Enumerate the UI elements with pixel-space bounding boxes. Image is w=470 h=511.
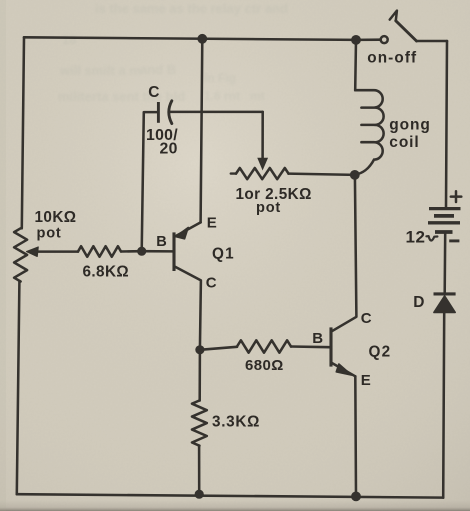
svg-text:B: B <box>312 330 323 347</box>
transistor Q1 emitter arrowhead (PNP, points to base) <box>176 227 189 239</box>
wire stub from node B to switch terminal <box>357 38 380 41</box>
battery - sign <box>449 239 459 242</box>
wire 6.8K to base node C <box>121 250 142 253</box>
node B (top-right junction) <box>351 35 361 45</box>
wire 3.3K down to bottom node F <box>198 446 201 495</box>
svg-text:will smilt a m: will smilt a m <box>59 63 141 78</box>
wire pot right lead to coil-bottom node D <box>289 174 355 175</box>
wire 680 to Q2 base bar <box>291 345 329 348</box>
inductor L1 gong coil <box>355 90 383 174</box>
battery B1 plate short <box>434 214 454 218</box>
resistor R4 680 element <box>237 340 291 352</box>
svg-text:gong: gong <box>389 116 430 133</box>
wire node B down to coil top <box>354 40 357 90</box>
svg-text:3.3KΩ: 3.3KΩ <box>212 414 260 431</box>
svg-text:Q2: Q2 <box>369 344 392 361</box>
switch S1 terminal circle <box>381 36 388 43</box>
wire switch to right rail corner <box>417 40 448 43</box>
svg-text:18: 18 <box>62 32 76 47</box>
wire right rail mid (battery - to diode) <box>443 234 446 293</box>
resistor R3 6.8K element <box>78 246 121 257</box>
svg-text:pot: pot <box>256 200 281 216</box>
wire bottom rail <box>17 494 443 497</box>
capacitor C right plate (curved) <box>169 101 172 124</box>
wire coil-bottom node D down to Q2 collector corner <box>332 175 357 331</box>
svg-text:20: 20 <box>160 141 178 158</box>
wire capacitor left lead + down to base node <box>142 112 159 251</box>
diode D cathode bar <box>434 292 456 295</box>
battery B1 plate long top <box>429 207 461 210</box>
diode D triangle <box>434 296 455 313</box>
node E (680/3.3K junction) <box>195 345 204 354</box>
svg-text:C: C <box>148 84 159 101</box>
switch S1 blade <box>396 21 417 41</box>
wire left rail upper (to 10K pot) <box>22 37 24 228</box>
svg-text:militerta sent the bld: militerta sent the bld <box>58 89 185 104</box>
svg-text:mt: mt <box>250 89 265 103</box>
node C (Q1 base junction) <box>137 247 146 256</box>
wire node E to 680 resistor <box>200 347 237 350</box>
battery B1 plate short bottom <box>435 230 453 234</box>
battery + sign <box>451 191 462 202</box>
svg-text:B: B <box>156 234 167 250</box>
potentiometer R1 10K pot element <box>14 228 27 281</box>
svg-text:on-off: on-off <box>367 50 417 67</box>
wire Q1 base lead from node C <box>142 250 173 253</box>
svg-text:E: E <box>361 372 371 389</box>
wire right rail upper (switch to battery +) <box>446 41 447 207</box>
wire mid-left vertical: node A down to Q1 emitter corner <box>201 39 203 223</box>
svg-text:C: C <box>206 274 217 291</box>
svg-text:10KΩ: 10KΩ <box>35 209 77 226</box>
resistor R2 1-or-2.5K pot element <box>231 172 236 174</box>
transistor Q2 emitter diagonal <box>331 362 356 376</box>
svg-text:and B: and B <box>140 62 176 77</box>
svg-text:D: D <box>413 294 424 311</box>
svg-text:E: E <box>207 215 217 232</box>
svg-text:coil: coil <box>389 134 419 151</box>
svg-text:680Ω: 680Ω <box>245 357 284 374</box>
wire Q2 emitter down to bottom node G <box>354 376 357 496</box>
wire right rail lower (diode to bottom rail) <box>443 313 444 498</box>
wire left rail lower <box>17 282 20 495</box>
wiper arrow of 10K pot (points left into pot) <box>37 250 79 253</box>
svg-text:C: C <box>361 310 372 327</box>
node A (top-mid junction) <box>197 34 207 44</box>
svg-text:6.8KΩ: 6.8KΩ <box>83 264 130 281</box>
transistor Q1 emitter diagonal <box>175 222 200 236</box>
battery B1 plate long <box>428 221 460 224</box>
wire capacitor right lead to pot wiper corner <box>169 111 263 114</box>
transistor Q1 base bar <box>172 232 175 271</box>
node D (coil bottom junction) <box>350 170 360 180</box>
node F (bottom rail junction left) <box>195 490 204 499</box>
capacitor C left plate <box>157 102 160 123</box>
pot wiper arrowhead <box>258 158 267 169</box>
svg-text:pot: pot <box>37 226 62 242</box>
volts squiggle <box>426 236 437 240</box>
svg-text:1.6 rnt: 1.6 rnt <box>204 89 240 103</box>
switch S1 handle hook <box>390 11 397 21</box>
resistor R5 3.3K element <box>192 401 207 446</box>
transistor Q2 emitter arrowhead (NPN, points out) <box>336 364 351 375</box>
transistor Q2 base bar <box>329 327 332 366</box>
wire node E down to 3.3K <box>198 350 201 401</box>
transistor Q1 collector diagonal + wire down to node E <box>174 266 201 349</box>
svg-text:12: 12 <box>406 228 426 247</box>
svg-text:ln Fig: ln Fig <box>204 71 236 85</box>
svg-text:Q1: Q1 <box>212 246 235 263</box>
wire top rail <box>24 37 357 40</box>
svg-text:is the same as the relay ctr a: is the same as the relay ctr and <box>95 1 288 16</box>
wire pot wiper vertical <box>261 112 264 160</box>
node G (bottom rail junction right) <box>351 492 361 502</box>
